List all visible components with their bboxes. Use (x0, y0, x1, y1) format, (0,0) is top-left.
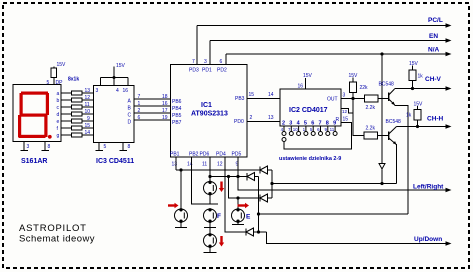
svg-text:14: 14 (85, 130, 91, 136)
svg-text:5: 5 (104, 144, 107, 150)
wire PD2 to N/A (226, 54, 449, 65)
svg-text:IC2 CD4017: IC2 CD4017 (289, 107, 328, 114)
red arrow T2 (168, 203, 179, 208)
svg-text:PD6: PD6 (200, 152, 210, 158)
IC2 carry out pin 12 stub (341, 109, 353, 114)
svg-text:5: 5 (47, 80, 50, 86)
IC2 pin16 15V supply (305, 78, 307, 89)
svg-text:18: 18 (162, 94, 168, 100)
svg-text:CH-V: CH-V (425, 76, 442, 83)
svg-text:3: 3 (289, 121, 292, 127)
wire PD1 to EN (210, 41, 449, 65)
phototransistor T3 F (204, 209, 217, 222)
svg-text:16: 16 (123, 88, 129, 94)
svg-text:16: 16 (298, 84, 304, 90)
svg-text:2.2k: 2.2k (366, 105, 376, 111)
svg-text:S161AR: S161AR (21, 158, 47, 165)
svg-text:Up/Down: Up/Down (414, 236, 442, 243)
svg-text:PD4: PD4 (216, 152, 226, 158)
svg-text:AT90S2313: AT90S2313 (191, 111, 228, 118)
svg-text:DP: DP (56, 80, 64, 86)
svg-text:PB6: PB6 (172, 99, 182, 105)
svg-text:5: 5 (304, 121, 307, 127)
wire T1 bottom to bar (209, 195, 211, 205)
IC3 CD4511 box (94, 86, 135, 143)
svg-text:2.2k: 2.2k (366, 126, 376, 132)
svg-text:PB7: PB7 (172, 120, 182, 126)
wire T5 top (209, 228, 211, 235)
phototransistor T4 E (232, 209, 245, 222)
red arrow T5 (219, 236, 224, 247)
wire IC1 PD6 column (209, 157, 211, 182)
svg-text:PC/L: PC/L (428, 17, 443, 24)
svg-text:11: 11 (202, 162, 207, 168)
svg-text:PD2: PD2 (217, 68, 227, 74)
wire IC1 PB3 to IC2 pin14 (247, 97, 280, 99)
svg-text:15: 15 (249, 92, 255, 98)
wire branch column (229, 177, 261, 199)
svg-text:Schemat ideowy: Schemat ideowy (19, 234, 95, 245)
wire A: IC3 pin7 to IC1 PB6 pin18 (134, 98, 171, 100)
resistor Rg (61, 133, 94, 137)
resistor 22k (350, 82, 357, 99)
Left/Right output arrow (446, 188, 452, 193)
svg-text:b: b (57, 98, 60, 104)
IC1 left pin labels (172, 99, 182, 126)
svg-text:e: e (57, 119, 60, 125)
phototransistor T1 (IR LED) (204, 182, 217, 195)
svg-text:15: 15 (343, 117, 349, 123)
wire down to photodetector T2 (180, 170, 182, 209)
svg-text:15V: 15V (409, 61, 419, 67)
diode D3 (260, 194, 272, 202)
resistor Rc (61, 105, 94, 109)
node pin13 line (179, 168, 182, 171)
svg-text:15V: 15V (303, 73, 313, 79)
svg-text:3: 3 (96, 88, 99, 94)
svg-text:8: 8 (326, 121, 329, 127)
svg-text:8x1k: 8x1k (68, 77, 79, 83)
svg-text:3: 3 (27, 144, 30, 150)
svg-text:2: 2 (282, 121, 285, 127)
svg-text:N/A: N/A (428, 47, 440, 54)
resistor 2.2k upper (365, 95, 389, 102)
wire Q2 emitter down (395, 145, 397, 184)
svg-text:6: 6 (138, 115, 141, 121)
svg-text:15V: 15V (414, 102, 424, 108)
svg-text:PD3: PD3 (189, 68, 199, 74)
CH-V output arrow (446, 86, 452, 91)
ground T3 (204, 222, 216, 228)
svg-text:1k: 1k (406, 113, 412, 119)
resistor Re (61, 119, 94, 123)
svg-text:IC3 CD4511: IC3 CD4511 (96, 158, 134, 165)
IC3 input labels A B C D (128, 99, 132, 126)
CH-H output arrow (446, 124, 452, 129)
svg-text:6: 6 (311, 121, 314, 127)
svg-text:1: 1 (138, 101, 141, 107)
svg-text:D: D (128, 120, 132, 126)
red arrow T4 (238, 203, 250, 208)
N/A output arrow (446, 52, 452, 57)
svg-text:1k: 1k (418, 74, 424, 80)
phototransistor T2 (175, 209, 188, 222)
svg-text:16: 16 (162, 101, 168, 107)
svg-text:12: 12 (342, 109, 348, 114)
diode D1 (260, 166, 272, 174)
svg-text:6: 6 (220, 59, 223, 65)
IC3 pin 5 ground (96, 143, 104, 151)
svg-text:22k: 22k (360, 85, 369, 91)
svg-text:a: a (57, 91, 60, 97)
svg-text:2: 2 (250, 115, 253, 121)
wire CH-H (397, 126, 450, 128)
IC1 right pin labels (234, 92, 254, 125)
resistor Rb (61, 98, 94, 102)
svg-text:10: 10 (293, 127, 299, 132)
svg-text:7: 7 (138, 94, 141, 100)
svg-text:17: 17 (162, 108, 168, 114)
svg-text:9: 9 (87, 116, 90, 122)
IC2 CD4017 box (280, 89, 341, 126)
svg-text:Left/Right: Left/Right (413, 184, 444, 191)
resistor R-DP vertical (51, 67, 57, 85)
svg-text:8: 8 (48, 144, 51, 150)
wire D4 to Up/Down (267, 232, 450, 244)
svg-text:OUT: OUT (327, 97, 338, 103)
svg-text:C: C (128, 113, 132, 119)
svg-text:IC1: IC1 (201, 102, 212, 109)
svg-text:12: 12 (217, 162, 223, 168)
node OUT junction (351, 97, 354, 100)
svg-text:13: 13 (268, 115, 274, 121)
svg-text:PD5: PD5 (232, 152, 242, 158)
Up/Down output arrow (446, 241, 452, 246)
svg-text:PB2: PB2 (189, 152, 199, 158)
svg-text:PB5: PB5 (172, 113, 182, 119)
wire B: IC3 pin1 to IC1 PB4 pin16 (134, 105, 171, 107)
PC/L output arrow (446, 23, 452, 28)
svg-text:BC548: BC548 (386, 119, 402, 125)
IC2 output pin numbers (281, 127, 335, 132)
svg-text:9: 9 (333, 121, 336, 127)
wire Q1 emitter (395, 105, 408, 214)
wire IC1 PB2 column (192, 157, 219, 204)
svg-text:ASTROPILOT: ASTROPILOT (19, 223, 87, 234)
svg-text:g: g (57, 133, 60, 139)
display ground pin 3 (21, 142, 29, 151)
svg-text:11: 11 (85, 102, 90, 108)
display ground pin 8 (42, 142, 50, 151)
svg-text:7: 7 (192, 59, 195, 65)
resistor Rd (61, 112, 94, 116)
resistor 1k upper (409, 66, 416, 89)
display DISP1 S161AR box (13, 85, 61, 142)
IC1 bottom pin labels (170, 152, 241, 168)
svg-text:F: F (217, 213, 221, 220)
wire OR node to Q2 emitter (272, 183, 397, 185)
wire CH-V (395, 88, 450, 90)
svg-text:4: 4 (116, 88, 119, 94)
svg-text:10: 10 (85, 109, 91, 115)
resistor Ra (61, 91, 94, 95)
wire pin11 row to D2 (210, 176, 247, 178)
wire IC1 PD5 column to Left/Right (238, 157, 449, 190)
wire Q1 emitter return (259, 213, 409, 215)
diode D6 on N/A branch (379, 164, 385, 170)
svg-text:PD0: PD0 (234, 119, 244, 125)
svg-text:PB3: PB3 (235, 96, 245, 102)
svg-text:2: 2 (138, 108, 141, 114)
wire C: IC3 pin2 to IC1 PB5 pin17 (134, 112, 171, 114)
svg-text:BC548: BC548 (379, 82, 395, 88)
resistor Rf (61, 126, 94, 130)
resistor 2.2k lower (364, 132, 389, 139)
wire E top (237, 198, 239, 209)
svg-text:d: d (57, 112, 60, 118)
divider select pads (282, 126, 337, 142)
ground T4 (232, 222, 244, 225)
wire IC1 PD0 to IC2 pin13 (247, 120, 280, 122)
display red digit 8. (18, 92, 52, 139)
svg-text:E: E (246, 214, 251, 221)
node N/A branch (380, 52, 383, 55)
EN output arrow (446, 38, 452, 43)
diode D4 (246, 228, 267, 236)
svg-text:ustawienie dzielnika 2-9: ustawienie dzielnika 2-9 (279, 156, 341, 162)
wire PD3 to PC/L (197, 26, 449, 65)
svg-text:15: 15 (85, 123, 91, 129)
wire IC1 PD4 column (225, 157, 246, 232)
ground T2 (175, 222, 187, 228)
svg-text:PB4: PB4 (172, 106, 182, 112)
diode D2 (247, 173, 259, 181)
wire D2 output down (258, 177, 260, 233)
wire D: IC3 pin6 to IC1 PB7 pin19 (134, 119, 171, 121)
red arrow T1 (219, 182, 224, 193)
ground T5 (204, 247, 217, 253)
svg-text:15V: 15V (57, 62, 67, 68)
svg-text:EN: EN (429, 33, 438, 40)
wire D1 to OR node (271, 170, 273, 198)
15V supply to IC3 pins 3 4 16 (101, 67, 129, 86)
IC1 top pin labels (189, 59, 227, 74)
wire OUT down to lower 2.2k (353, 99, 364, 136)
svg-text:14: 14 (268, 92, 274, 98)
svg-text:15V: 15V (116, 63, 126, 69)
svg-text:3: 3 (204, 59, 207, 65)
svg-text:19: 19 (162, 115, 168, 121)
display segment pin letters a-g (57, 91, 60, 139)
resistor 1k lower (414, 106, 421, 127)
IC1 AT90S2313 box (171, 65, 248, 158)
svg-text:PB1: PB1 (170, 152, 180, 158)
wire R to divider select (284, 123, 352, 150)
svg-text:3: 3 (343, 93, 346, 99)
phototransistor T5 (IR LED) (204, 234, 217, 247)
wire IC1 PB1 column (176, 157, 260, 170)
svg-text:PD1: PD1 (202, 68, 212, 74)
svg-text:12: 12 (85, 95, 91, 101)
svg-text:CH-H: CH-H (427, 116, 444, 123)
svg-text:13: 13 (85, 88, 91, 94)
IC3 pin 8 ground (120, 143, 128, 151)
svg-text:7: 7 (319, 121, 322, 127)
svg-text:8: 8 (128, 144, 131, 150)
IC2 output numbers 2-9 (282, 121, 336, 127)
